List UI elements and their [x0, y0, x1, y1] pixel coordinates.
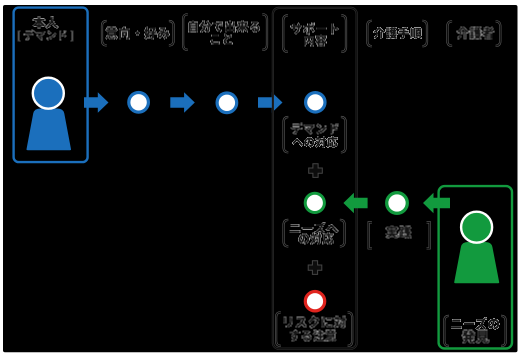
node circle 3 (blue, support)	[306, 93, 325, 112]
bracket: demand e no taiou	[284, 117, 346, 152]
label: honnin	[32, 17, 58, 29]
node circle 6 (green, practice)	[387, 193, 408, 214]
green arrow 2 (left)	[423, 193, 450, 214]
bracket: jibun de dekiru koto	[183, 14, 267, 50]
arrow 3 (blue)	[258, 92, 283, 113]
bracket: needs hakken	[444, 316, 505, 346]
node circle 1 (blue)	[129, 93, 149, 113]
box: needs discovery (green)	[439, 186, 512, 348]
label: risk-line1	[283, 316, 346, 328]
label: needs-hakken-line2	[462, 330, 490, 343]
label: jissen	[386, 226, 412, 238]
label: demand-line1	[291, 123, 339, 134]
person icon (blue, self)	[26, 78, 71, 151]
bracket: ikou konomi	[102, 21, 174, 45]
bracket: kaigo tejun	[367, 21, 427, 46]
green arrow 1 (left)	[343, 193, 367, 214]
label: kaigo tejun	[373, 28, 422, 39]
plus sign 2	[308, 261, 322, 275]
label: ikou konomi	[105, 27, 170, 39]
node circle 2 (blue)	[217, 93, 237, 113]
label: jibun de dekiru	[188, 21, 260, 32]
arrow 2 (blue)	[170, 92, 195, 113]
label: demand-line2	[292, 137, 338, 148]
label: kaigosha	[456, 27, 494, 39]
plus sign 1	[309, 164, 323, 178]
big middle column box	[273, 8, 357, 349]
label: naiyou	[304, 35, 327, 46]
bracket: support naiyou	[283, 15, 346, 52]
person icon (green, caregiver)	[454, 212, 499, 284]
label: needs-hakken-line1	[451, 318, 500, 330]
label: demand	[17, 30, 73, 41]
arrow 1 (blue)	[84, 92, 109, 113]
label: needs-line1	[290, 223, 339, 234]
label: needs-line2	[298, 233, 334, 244]
node circle 4 (green, needs)	[305, 193, 324, 212]
bracket: risk chuui	[276, 312, 352, 346]
bracket: jissen	[369, 222, 430, 248]
bracket: needs e no taiou	[284, 220, 345, 247]
label: support	[290, 23, 339, 34]
box: person (demand)	[14, 8, 88, 163]
label: risk-line2	[290, 330, 337, 341]
bracket: kaigosha	[447, 21, 500, 46]
label: koto	[210, 34, 233, 44]
node circle 5 (red, risk)	[305, 292, 324, 311]
